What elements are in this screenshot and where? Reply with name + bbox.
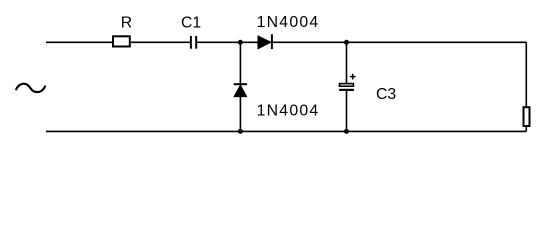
plus mark of C3 [350, 76, 356, 78]
wire C3 branch upper [346, 42, 348, 83]
wire right vertical lower [525, 127, 527, 132]
wire diode branch upper [239, 42, 241, 84]
wire between C1 and D1 [197, 41, 258, 43]
wire between R and C1 [131, 41, 190, 43]
wire diode branch lower [239, 97, 241, 132]
junction node bottom-left [238, 129, 243, 134]
svg-text:1N4004: 1N4004 [257, 103, 320, 120]
capacitor C3 (polarized) [340, 84, 354, 87]
diode D2 1N4004 (vertical, pointing up) [234, 83, 247, 85]
svg-text:C3: C3 [376, 86, 396, 103]
capacitor C1 [190, 36, 192, 49]
wire top rail right segment [272, 41, 527, 43]
wire top rail left segment [46, 41, 113, 43]
junction node top-left [238, 40, 243, 45]
svg-text:R: R [121, 15, 132, 32]
resistor load (right) [524, 107, 530, 126]
svg-text:1N4004: 1N4004 [257, 14, 320, 31]
bottom rail [46, 130, 526, 132]
junction node top-right [344, 40, 349, 45]
diode D1 1N4004 (horizontal) [258, 36, 271, 49]
resistor R [113, 36, 130, 46]
svg-text:C1: C1 [181, 15, 201, 32]
junction node bottom-right [344, 129, 349, 134]
wire C3 branch lower [346, 90, 348, 131]
wire right vertical upper [525, 42, 527, 107]
ac source V1 [16, 84, 45, 92]
